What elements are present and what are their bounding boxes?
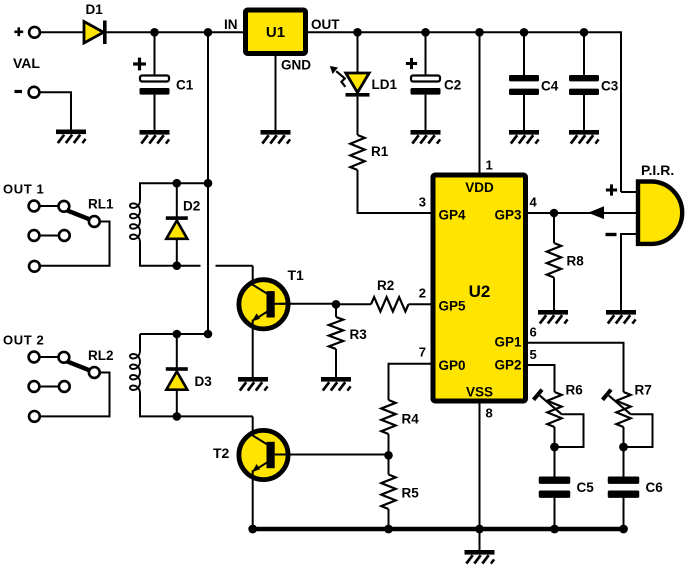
label D2 — [183, 199, 200, 214]
terminal OUT2 f — [29, 411, 40, 422]
wire: R3 top — [335, 304, 337, 317]
resistor R5 — [381, 475, 395, 510]
node: VDD tap — [475, 28, 484, 37]
wire: pin1 VDD — [479, 32, 481, 175]
wire: T2 emitter to bus — [252, 478, 254, 530]
label + (PIR) — [606, 184, 617, 195]
node: bus right end — [619, 525, 628, 534]
svg-text:3: 3 — [419, 195, 426, 210]
diode D1 — [84, 21, 107, 45]
wire: R5 to bus — [388, 509, 390, 529]
label R4 — [402, 412, 420, 427]
wire: C3 top — [583, 32, 585, 75]
label + (C1) — [133, 58, 146, 71]
svg-text:4: 4 — [530, 195, 538, 210]
svg-text:R7: R7 — [635, 383, 652, 398]
node: bus VSS — [475, 525, 484, 534]
pin 3 label — [419, 195, 426, 210]
label OUT — [311, 17, 340, 32]
voltage regulator U1 — [246, 10, 306, 54]
svg-text:U1: U1 — [266, 24, 285, 41]
svg-text:VAL: VAL — [13, 55, 40, 71]
node: LD1 tap — [353, 28, 362, 37]
svg-text:R4: R4 — [402, 412, 420, 427]
node: bus left end — [248, 525, 257, 534]
wire: C5 to bus — [554, 497, 556, 529]
svg-text:GP2: GP2 — [494, 358, 521, 373]
svg-text:8: 8 — [486, 406, 493, 421]
svg-text:IN: IN — [224, 17, 238, 32]
ground (R8) — [538, 310, 568, 324]
wire OUT1 a-b — [40, 205, 59, 207]
label R8 — [567, 254, 585, 269]
wire: R1 to GP4 — [358, 170, 434, 213]
ground (U1) — [261, 130, 291, 144]
wire OUT1 d-e — [40, 235, 59, 237]
svg-text:C3: C3 — [601, 79, 619, 94]
label C1 — [176, 78, 194, 93]
transistor T2 — [239, 430, 291, 479]
label - — [15, 90, 23, 93]
transistor T1 — [239, 280, 291, 329]
label R5 — [402, 486, 420, 501]
node: C3 tap — [580, 28, 589, 37]
ground (C2) — [411, 130, 441, 144]
node: R3 junction — [332, 300, 341, 309]
capacitor C6 — [608, 477, 640, 498]
label P.I.R. — [641, 162, 674, 178]
node: C1 tap junction — [150, 28, 159, 37]
wire: C4 to ground — [523, 95, 525, 130]
wire: R6 wiper loop — [555, 414, 584, 447]
terminal OUT1 f — [29, 261, 40, 272]
wire: D2 leads — [176, 183, 178, 266]
svg-text:2: 2 — [419, 286, 426, 301]
diode D2 — [166, 216, 188, 239]
svg-text:D3: D3 — [195, 374, 213, 389]
wire: VSS to bus — [479, 401, 481, 529]
svg-text:C4: C4 — [541, 79, 559, 94]
node: D3 bottom junction — [173, 412, 182, 421]
label T1 — [288, 267, 305, 283]
wire: C1 top — [154, 32, 156, 76]
wire OUT1 c loop — [40, 222, 110, 266]
label OUT 2 — [3, 333, 44, 348]
wire: GP2 lead — [526, 365, 555, 392]
relay coil RL2 — [130, 351, 140, 393]
wire: U1 GND to ground — [275, 54, 277, 131]
node: C2 tap — [421, 28, 430, 37]
wire: - terminal to ground — [40, 92, 72, 129]
resistor R3 — [329, 317, 343, 349]
wire: T2 collector — [252, 416, 254, 434]
svg-text:C6: C6 — [646, 480, 664, 495]
wire OUT2 d-e — [40, 386, 59, 388]
wire: R7 bottom — [623, 427, 625, 447]
label D1 — [86, 2, 104, 17]
label RL2 — [88, 348, 114, 363]
terminal OUT1 c — [89, 216, 100, 227]
wire: T2 base — [280, 454, 389, 456]
ground (bus) — [465, 550, 495, 564]
label + (C2) — [406, 58, 417, 69]
relay RL1 lever — [67, 210, 90, 219]
svg-text:1: 1 — [486, 158, 493, 173]
ground (T1) — [238, 377, 268, 391]
svg-text:GP5: GP5 — [439, 299, 467, 314]
svg-text:GP1: GP1 — [494, 335, 522, 350]
wire: D2 bottom link (after rail gap) — [216, 265, 253, 267]
ground (PIR) — [606, 310, 636, 324]
capacitor C4 — [509, 75, 539, 95]
wire: LD1 top — [357, 32, 359, 73]
terminal OUT2 b — [59, 352, 70, 363]
wire: GP3 to P.I.R. — [526, 212, 639, 214]
wire: R8 to ground — [553, 278, 555, 311]
label R6 — [566, 383, 584, 398]
wire: RL2 coil bottom — [140, 393, 253, 416]
wire: GP0 lead — [389, 364, 434, 400]
ground (VAL -) — [56, 130, 86, 144]
svg-text:5: 5 — [530, 347, 537, 362]
diode D3 — [166, 367, 188, 390]
svg-text:VDD: VDD — [465, 180, 494, 195]
capacitor C3 — [569, 75, 599, 95]
label C4 — [541, 79, 559, 94]
terminal OUT2 c — [89, 367, 100, 378]
wire: R5 top — [388, 455, 390, 474]
node: T2 base junction — [384, 451, 393, 460]
trimmer R6 — [534, 390, 562, 427]
pin 7 label — [419, 345, 426, 360]
label C2 — [444, 78, 461, 93]
svg-text:T1: T1 — [288, 267, 305, 283]
svg-text:LD1: LD1 — [372, 77, 398, 92]
wire: C2 top — [425, 32, 427, 76]
wire: PIR - to ground — [621, 234, 638, 310]
pin 2 label — [419, 286, 426, 301]
pin 8 label — [486, 406, 493, 421]
ground bus — [252, 527, 624, 532]
wire: PIR + lead — [621, 191, 638, 193]
pin 4 label — [530, 195, 538, 210]
label C6 — [646, 480, 664, 495]
pin 6 label — [530, 325, 537, 340]
svg-text:R8: R8 — [567, 254, 585, 269]
IC U2 — [433, 175, 526, 401]
svg-text:C2: C2 — [444, 78, 461, 93]
wire: C6 to bus — [623, 497, 625, 529]
svg-text:OUT: OUT — [311, 17, 340, 32]
label VAL — [13, 55, 40, 71]
wire: T1 base — [280, 303, 336, 305]
PIR sensor — [638, 182, 682, 244]
ground (R3) — [321, 377, 351, 391]
node: D2 bottom junction — [173, 261, 182, 270]
label - (PIR) — [606, 233, 617, 236]
wire: LD1 to R1 — [357, 97, 359, 135]
wire: + terminal to D1 — [40, 31, 83, 33]
capacitor C1 — [140, 76, 170, 95]
terminal OUT2 e — [59, 381, 70, 392]
node: R8 junction — [550, 209, 559, 218]
label C3 — [601, 79, 619, 94]
terminal OUT1 b — [59, 201, 70, 212]
wire: R8 top — [553, 213, 555, 243]
label R1 — [371, 144, 389, 159]
terminal OUT1 a — [29, 201, 40, 212]
label R2 — [377, 278, 394, 293]
svg-text:D2: D2 — [183, 199, 200, 214]
svg-text:R1: R1 — [371, 144, 389, 159]
wire: RL2 top link — [140, 334, 208, 351]
wire: D1 to U1 IN with taps — [107, 31, 244, 33]
node: rail-RL2 top junction — [204, 330, 213, 339]
pin 1 label — [486, 158, 493, 173]
wire: C6 top — [623, 447, 625, 477]
node: R7/C6 junction — [619, 443, 628, 452]
terminal - VAL — [29, 87, 40, 98]
ground (C3) — [569, 130, 599, 144]
wire: D3 leads — [176, 334, 178, 416]
terminal OUT2 a — [29, 352, 40, 363]
relay RL2 lever — [67, 361, 90, 370]
svg-text:6: 6 — [530, 325, 537, 340]
arrow into GP3 — [588, 206, 604, 219]
capacitor C5 — [539, 477, 571, 498]
resistor R1 — [350, 135, 364, 170]
label D3 — [195, 374, 213, 389]
wire: GP1 lead — [526, 343, 624, 392]
wire: C3 to ground — [583, 95, 585, 130]
label R7 — [635, 383, 652, 398]
label RL1 — [88, 197, 114, 212]
wire: C4 top — [523, 32, 525, 75]
terminal OUT1 e — [59, 230, 70, 241]
wire: R4 to node — [388, 434, 390, 455]
svg-text:GP4: GP4 — [439, 208, 467, 223]
wire: C2 to ground — [425, 95, 427, 130]
label C5 — [577, 480, 595, 495]
capacitor C2 — [411, 76, 441, 95]
svg-text:VSS: VSS — [466, 385, 493, 400]
wire: R7 wiper loop — [624, 414, 653, 447]
svg-text:GP0: GP0 — [439, 358, 466, 373]
svg-text:OUT 1: OUT 1 — [3, 182, 44, 197]
pin 5 label — [530, 347, 537, 362]
node: C4 tap — [520, 28, 529, 37]
svg-text:GND: GND — [281, 58, 311, 73]
svg-text:R3: R3 — [350, 327, 368, 342]
wire: RL1 coil bottom — [140, 242, 201, 266]
svg-text:RL2: RL2 — [88, 348, 114, 363]
svg-text:D1: D1 — [86, 2, 104, 17]
svg-text:RL1: RL1 — [88, 197, 114, 212]
ground (C4) — [509, 130, 539, 144]
svg-text:T2: T2 — [213, 445, 230, 461]
svg-text:P.I.R.: P.I.R. — [641, 162, 674, 178]
trimmer R7 — [603, 390, 631, 427]
svg-text:7: 7 — [419, 345, 426, 360]
wire: R2 left lead — [336, 303, 371, 305]
node: down-rail tap junction — [204, 28, 213, 37]
wire: C1 to ground — [154, 95, 156, 130]
svg-text:C5: C5 — [577, 480, 595, 495]
wire: RL1 top link — [140, 183, 208, 200]
svg-text:OUT 2: OUT 2 — [3, 333, 44, 348]
node: R6/C5 junction — [550, 443, 559, 452]
node: bus C5 — [550, 525, 559, 534]
relay coil RL1 — [130, 201, 140, 243]
label GND — [281, 58, 311, 73]
svg-text:C1: C1 — [176, 78, 194, 93]
svg-text:R2: R2 — [377, 278, 394, 293]
LED LD1 — [330, 66, 370, 97]
resistor R8 — [547, 243, 561, 278]
wire OUT2 a-b — [40, 356, 59, 358]
label OUT 1 — [3, 182, 44, 197]
node: D2 top junction — [173, 179, 182, 188]
label T2 — [213, 445, 230, 461]
wire: C5 top — [554, 447, 556, 477]
label IN — [224, 17, 238, 32]
resistor R4 — [381, 400, 395, 434]
node: D3 top junction — [173, 330, 182, 339]
svg-text:GP3: GP3 — [494, 208, 522, 223]
node: rail-RL1 top junction — [204, 179, 213, 188]
label R3 — [350, 327, 368, 342]
svg-text:U2: U2 — [469, 282, 491, 301]
wire: T1 emitter to ground — [252, 327, 254, 377]
wire: vertical rail x=208 — [207, 32, 209, 334]
label + — [14, 27, 23, 36]
resistor R2 — [371, 297, 409, 311]
wire OUT2 c loop — [40, 373, 110, 417]
svg-text:R6: R6 — [566, 383, 584, 398]
svg-text:R5: R5 — [402, 486, 420, 501]
wire: T1 collector — [252, 266, 254, 283]
terminal + VAL — [29, 27, 40, 38]
wire: R3 to ground — [335, 349, 337, 377]
terminal OUT1 d — [29, 230, 40, 241]
wire: U1 OUT top rail to P.I.R. corner — [308, 32, 621, 192]
terminal OUT2 d — [29, 381, 40, 392]
wire: bus ground stub — [479, 529, 481, 550]
label LD1 — [372, 77, 398, 92]
ground (C1) — [140, 130, 170, 144]
wire: R6 bottom — [554, 427, 556, 447]
node: bus R5 — [384, 525, 393, 534]
wire: R2 to GP5 — [409, 303, 434, 305]
